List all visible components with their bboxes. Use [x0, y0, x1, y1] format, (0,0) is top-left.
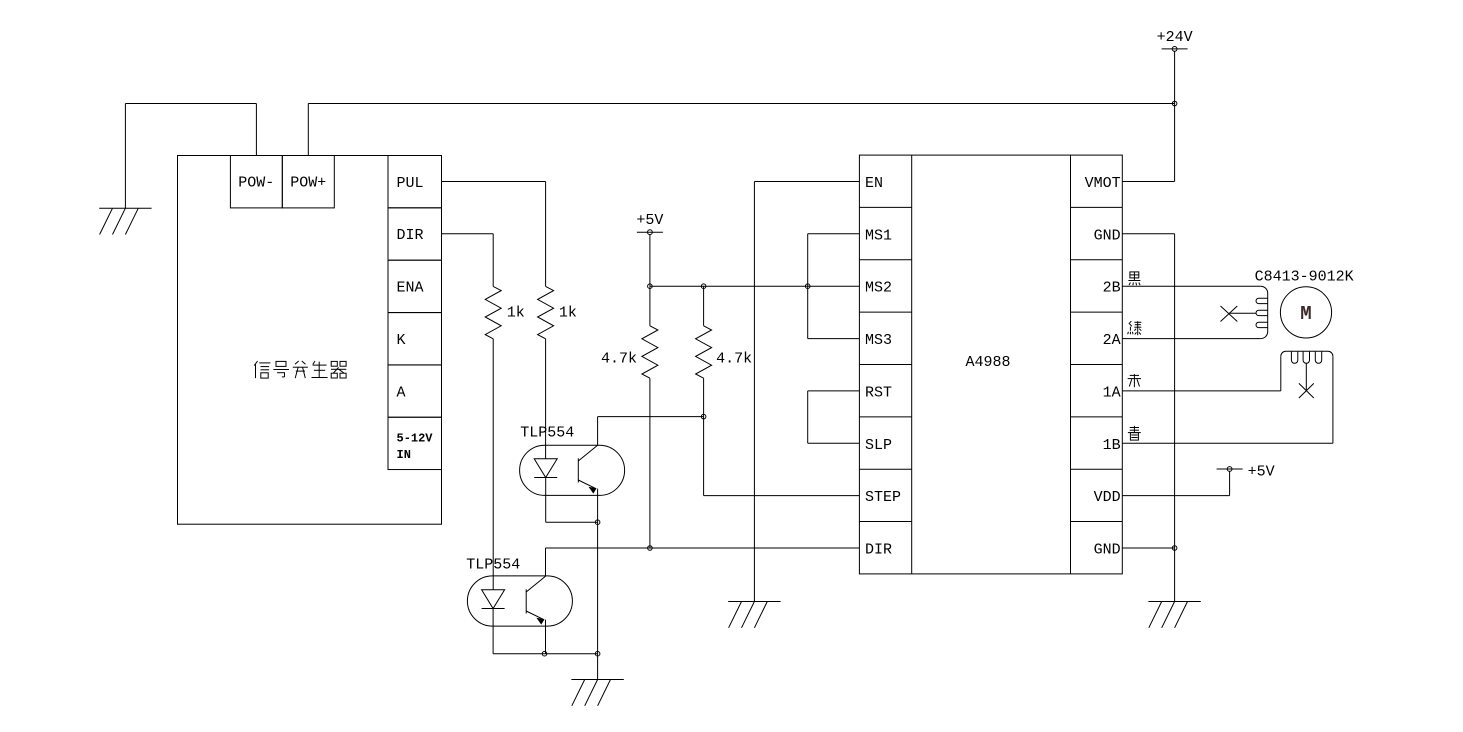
wire winding A center tap [1305, 363, 1307, 390]
IC U3 A4988 [859, 155, 1122, 574]
svg-text:ENA: ENA [397, 280, 424, 297]
no-connect X (winding A tap) [1299, 383, 1314, 398]
ground (POW- / left) [99, 208, 151, 234]
node junction DIR net / 4.7k [648, 546, 653, 551]
label 赤 (red wire) [1128, 374, 1141, 387]
inductor motor winding A (1A-1B) [1281, 351, 1333, 391]
svg-text:5-12V: 5-12V [397, 432, 434, 446]
node junction U2 emitter [542, 651, 547, 656]
wire R(1k) to opto U1 LED anode [545, 339, 547, 459]
wire +5V rail to MS2 [650, 285, 860, 287]
pin divider row 6 [859, 468, 911, 470]
svg-text:DIR: DIR [397, 227, 424, 244]
label 信号発生器 (signal generator) [254, 361, 270, 378]
resistor 4.7k (DIR pull-up) [649, 286, 651, 326]
wire MS1-MS2-MS3 tie [808, 234, 860, 339]
wire U1 LED cathode to emitter [546, 478, 598, 523]
svg-text:K: K [397, 332, 406, 349]
wire opto ground rail [545, 653, 598, 655]
svg-text:4.7k: 4.7k [716, 351, 752, 368]
svg-text:RST: RST [865, 384, 892, 401]
wire U1 collector to 4.7k/STEP [598, 417, 704, 446]
svg-text:GND: GND [1094, 227, 1121, 244]
pin K (signal generator) [388, 313, 442, 365]
svg-text:VMOT: VMOT [1085, 175, 1121, 192]
svg-text:GND: GND [1094, 542, 1121, 559]
svg-text:2B: 2B [1103, 280, 1121, 297]
wire U1 emitter to ground [597, 489, 599, 680]
pin ENA (signal generator) [388, 260, 442, 312]
wire 4.7k to STEP net [704, 378, 860, 495]
pin A (signal generator) [388, 365, 442, 417]
svg-text:C8413-9012K: C8413-9012K [1255, 269, 1354, 286]
node junction U1 emitter/cathode [595, 520, 600, 525]
ground (opto) [571, 680, 623, 706]
svg-text:A: A [397, 384, 406, 401]
wire 4.7k to DIR net [649, 378, 651, 548]
wire GND pin to ground rail [1122, 234, 1174, 602]
pin POW- [230, 156, 282, 208]
wire +24V to VMOT [1122, 51, 1174, 181]
pin POW+ [282, 156, 334, 208]
node junction +5V/4.7k [648, 284, 653, 289]
no-connect X (winding B tap) [1221, 306, 1238, 322]
wire GND2 pin [1122, 547, 1174, 549]
svg-text:TLP554: TLP554 [466, 556, 520, 573]
svg-text:+5V: +5V [636, 212, 663, 229]
node junction MS tie / rail [805, 284, 810, 289]
node junction +24V / top rail [1172, 101, 1177, 106]
wire U2 emitter down [545, 620, 547, 654]
svg-text:SLP: SLP [865, 437, 892, 454]
resistor 1k (DIR) [485, 286, 501, 338]
pin divider row 3 [859, 311, 911, 313]
svg-text:1k: 1k [507, 305, 525, 322]
wire DIR to R(1k) [442, 234, 494, 287]
wire 1B to motor coil [1122, 356, 1333, 443]
pin DIR (signal generator) [388, 208, 442, 260]
label 青 (blue wire) [1128, 426, 1141, 440]
svg-text:STEP: STEP [865, 489, 901, 506]
ground (A4988 GND) [1148, 602, 1200, 628]
label 黒 (black wire) [1128, 272, 1140, 285]
svg-text:POW+: POW+ [290, 175, 326, 192]
svg-text:IN: IN [397, 448, 411, 462]
power +5V (VDD) [1217, 464, 1275, 481]
motor M (C8413-9012K) [1280, 287, 1331, 338]
svg-text:M: M [1300, 303, 1311, 325]
svg-text:1B: 1B [1103, 437, 1121, 454]
wire R(1k) to opto U2 LED anode [492, 339, 494, 590]
wire EN to ground [754, 182, 859, 602]
pin divider row 5 [859, 416, 911, 418]
inductor motor winding B (2B-2A) [1256, 286, 1268, 338]
label 緑 (green wire) [1128, 321, 1142, 335]
optocoupler U2 TLP554 (DIR) [467, 576, 572, 626]
svg-text:4.7k: 4.7k [601, 351, 637, 368]
wire U2 LED cathode to ground rail [493, 609, 544, 654]
svg-text:MS1: MS1 [865, 227, 892, 244]
svg-text:A4988: A4988 [965, 354, 1010, 371]
resistor 1k (PUL) [538, 286, 554, 338]
wire U2 collector to DIR net [546, 548, 860, 576]
signal generator box (信号発生器) [178, 156, 442, 525]
wire POW- to ground [125, 104, 256, 209]
wire winding B center tap [1229, 312, 1256, 314]
pin divider row 4 [859, 364, 911, 366]
svg-text:1A: 1A [1103, 384, 1121, 401]
node junction 4.7k/STEP/collector [701, 414, 706, 419]
wire RST-SLP tie [808, 391, 860, 443]
wire +5V to rail [649, 235, 651, 287]
svg-text:TLP554: TLP554 [520, 425, 574, 442]
wire POW+ to +24V rail [308, 104, 1174, 156]
svg-text:EN: EN [865, 175, 883, 192]
svg-text:2A: 2A [1103, 332, 1121, 349]
svg-text:1k: 1k [559, 305, 577, 322]
pin PUL (signal generator) [388, 156, 442, 208]
svg-text:PUL: PUL [397, 175, 424, 192]
wire 1A to motor coil [1122, 390, 1281, 392]
svg-text:POW-: POW- [238, 175, 274, 192]
svg-text:+5V: +5V [1248, 464, 1275, 481]
svg-text:DIR: DIR [865, 542, 892, 559]
node junction GND rail [1172, 546, 1177, 551]
wire PUL to R(1k) [442, 182, 546, 287]
wire VDD to +5V [1122, 471, 1229, 495]
pin divider row 7 [859, 521, 911, 523]
node junction opto ground [595, 651, 600, 656]
node junction rail/4.7k [701, 284, 706, 289]
op-amp/optocoupler U1 TLP554 (PUL) [520, 445, 625, 495]
wire 2A to motor coil [1122, 338, 1260, 340]
resistor 4.7k (STEP pull-up) [703, 286, 705, 326]
svg-text:+24V: +24V [1157, 29, 1193, 46]
wire 2B to motor coil [1122, 285, 1260, 287]
pin divider row 1 [859, 206, 911, 208]
svg-text:MS2: MS2 [865, 280, 892, 297]
svg-text:VDD: VDD [1094, 489, 1121, 506]
svg-text:MS3: MS3 [865, 332, 892, 349]
pin 5-12V IN [388, 417, 442, 469]
ground (EN) [728, 602, 780, 628]
pin divider row 2 [859, 259, 911, 261]
power +24V [1157, 29, 1193, 51]
power +5V (logic) [636, 212, 663, 234]
